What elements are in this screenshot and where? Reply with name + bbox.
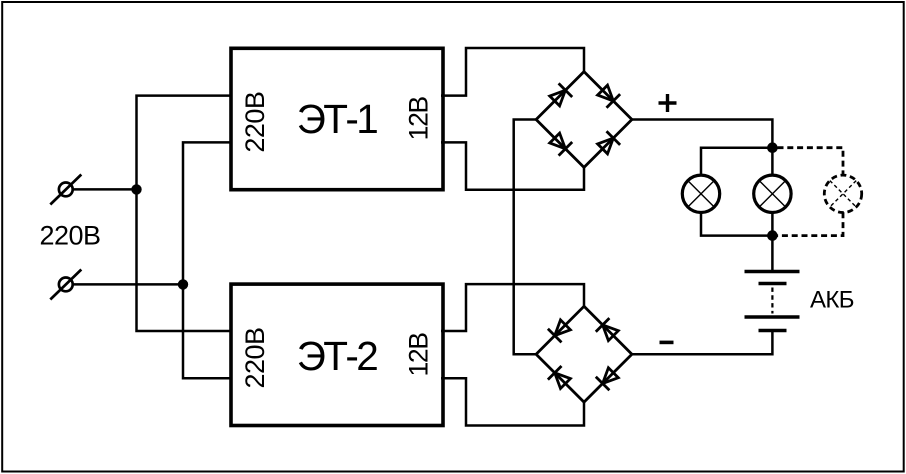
battery АКБ (745, 272, 800, 331)
junction node C (767, 142, 778, 153)
diode VD2.2 (bridge 2 upper-right) (596, 318, 619, 341)
wire ЭТ-1 secondary pin 1 to bridge 1 AC top (441, 48, 584, 96)
wire X2 to node B (73, 283, 183, 286)
wire battery minus plate to bridge 2 minus (632, 331, 773, 355)
junction node A (131, 184, 141, 194)
diode VD1.2 (bridge 1 upper-right) (598, 85, 621, 108)
wire node C to lamp HL2 top (771, 148, 774, 176)
svg-text:12В: 12В (403, 96, 433, 140)
electronic transformer ЭТ-2 (231, 284, 443, 425)
diode VD2.1 (bridge 2 upper-left) (548, 320, 571, 343)
wire node C to lamp HL1 top (701, 148, 772, 176)
svg-text:12В: 12В (403, 333, 433, 377)
label − (660, 341, 674, 345)
wire node B up to ЭТ-1 primary pin 2 (183, 142, 233, 284)
diode VD2.4 (bridge 2 lower-right) (596, 368, 619, 391)
wire node B down to ЭТ-2 primary pin 2 (183, 284, 233, 378)
diode VD1.3 (bridge 1 lower-left) (550, 133, 573, 156)
lamp HL2 (754, 175, 791, 212)
dashed wire node C to lamp HL3 top (778, 148, 844, 176)
diode VD1.1 (bridge 1 upper-left) (550, 83, 573, 106)
svg-text:ЭТ-1: ЭТ-1 (297, 96, 378, 142)
wire lamp HL1 bottom to node D (701, 212, 772, 235)
lamp HL3 (optional, dashed) (824, 175, 861, 212)
wire ЭТ-1 secondary pin 2 to bridge 1 AC bottom (441, 142, 584, 189)
svg-text:220В: 220В (39, 221, 100, 251)
junction node D (767, 230, 778, 241)
wire X1 to node A (73, 188, 137, 191)
svg-text:220В: 220В (240, 327, 270, 388)
wire ЭТ-2 secondary pin 1 to bridge 2 AC top (441, 284, 584, 331)
svg-text:АКБ: АКБ (810, 287, 854, 314)
dashed wire lamp HL3 bottom to node D (778, 212, 844, 235)
svg-text:220В: 220В (240, 92, 270, 153)
wire bridge 1 minus to bridge 2 plus (series link) (514, 120, 536, 355)
electronic transformer ЭТ-1 (231, 48, 443, 189)
lamp HL1 (682, 175, 719, 212)
label + (659, 94, 677, 112)
junction node B (178, 279, 188, 289)
terminal X1 (50, 175, 81, 205)
diode VD2.3 (bridge 2 lower-left) (548, 366, 571, 389)
terminal X2 (50, 270, 81, 300)
svg-text:ЭТ-2: ЭТ-2 (297, 333, 378, 379)
wire lamp HL2 bottom to node D (771, 212, 774, 235)
wire node A down to ЭТ-2 primary pin 1 (137, 189, 234, 331)
bridge rectifier VD2 ring (536, 306, 632, 402)
wire node D to battery plus plate (771, 236, 774, 272)
diode VD1.4 (bridge 1 lower-right) (598, 131, 621, 154)
wire node A up to ЭТ-1 primary pin 1 (137, 96, 234, 190)
bridge rectifier VD1 ring (536, 72, 632, 168)
wire bridge 1 plus to node C (632, 120, 773, 148)
wire ЭТ-2 secondary pin 2 to bridge 2 AC bottom (441, 378, 584, 425)
